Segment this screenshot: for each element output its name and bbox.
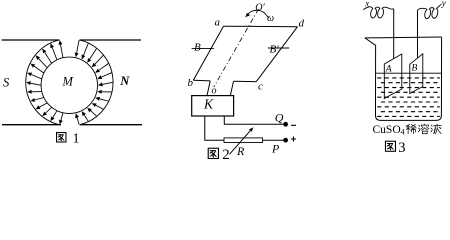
caption 图 3 <box>385 141 395 151</box>
magnet yoke bottom-left line <box>2 124 61 126</box>
svg-text:CuSO4: CuSO4 <box>373 124 405 137</box>
svg-text:y: y <box>441 0 446 8</box>
svg-text:S: S <box>3 76 10 90</box>
rotor circle M <box>41 57 97 113</box>
liquid surface <box>376 72 442 74</box>
svg-text:B′: B′ <box>270 44 280 56</box>
svg-text:N: N <box>119 74 130 88</box>
svg-text:d: d <box>299 18 305 30</box>
beaker spout <box>365 38 376 45</box>
svg-text:b: b <box>188 77 194 89</box>
coil bottom edge c side <box>234 80 257 82</box>
coiled lead x (left) <box>363 7 394 18</box>
rheostat slider arrow <box>230 131 251 155</box>
electrode B plate <box>410 54 423 94</box>
coil lead wire left <box>207 81 210 96</box>
rotation arrow with omega <box>247 10 270 18</box>
svg-text:3: 3 <box>398 140 405 156</box>
svg-text:P: P <box>271 142 280 156</box>
left pole face arc (S) <box>26 40 59 125</box>
electrode A plate <box>384 54 402 99</box>
liquid dashes <box>377 78 440 117</box>
terminal Q dot <box>283 122 288 127</box>
svg-text:2: 2 <box>222 147 230 161</box>
svg-text:B: B <box>412 64 418 74</box>
wire from K through rheostat to P <box>205 116 224 140</box>
wire to electrode A <box>393 9 395 59</box>
plus sign <box>291 137 296 142</box>
terminal P dot <box>283 138 288 143</box>
svg-text:B: B <box>194 42 201 54</box>
wire rheostat to P <box>263 139 284 141</box>
magnet yoke top-left line <box>2 39 60 41</box>
svg-text:c: c <box>258 81 263 93</box>
wire to electrode B <box>417 10 419 58</box>
svg-text:O′: O′ <box>255 3 265 14</box>
svg-text:M: M <box>62 75 74 89</box>
commutator box K <box>192 96 234 116</box>
label 稀溶液 (drawn) <box>406 124 416 133</box>
svg-text:A: A <box>385 65 392 75</box>
coil right edge d-c <box>256 27 297 82</box>
right pole face arc (N) <box>80 40 113 125</box>
coiled lead y (right) <box>418 4 442 19</box>
svg-text:1: 1 <box>73 132 80 147</box>
coil lead wire right <box>230 81 233 95</box>
coil top edge a-d <box>224 25 298 28</box>
rheostat R body <box>224 138 263 143</box>
minus sign <box>291 124 296 126</box>
magnet yoke top-right line <box>80 39 142 41</box>
svg-text:Q: Q <box>275 111 284 125</box>
rotation axis OO' dash-dot <box>214 9 259 87</box>
wire from K to Q <box>224 116 283 124</box>
magnet yoke bottom-right line <box>80 124 142 126</box>
svg-text:R: R <box>236 144 245 158</box>
caption 图 2 <box>208 148 218 158</box>
svg-text:o: o <box>212 86 217 97</box>
coil bottom edge b side <box>193 79 210 82</box>
svg-text:K: K <box>203 97 214 112</box>
coil left edge a-b <box>193 26 223 80</box>
svg-text:x: x <box>364 0 369 9</box>
field arrows right (pointing inward from N) <box>75 40 113 124</box>
svg-text:a: a <box>215 17 221 29</box>
field arrows left (pointing outward toward S) <box>26 40 63 124</box>
svg-text:ω: ω <box>267 13 274 24</box>
beaker rim <box>365 36 442 39</box>
beaker left wall + bottom + right wall <box>376 37 442 120</box>
caption 图 1 <box>57 133 66 142</box>
